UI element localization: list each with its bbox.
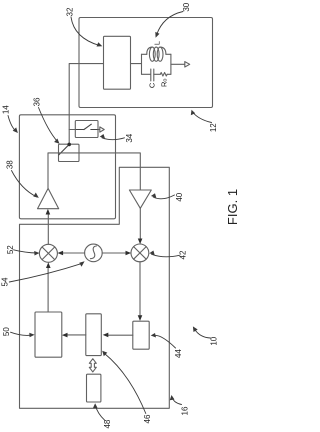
leader arrowhead 36: [54, 139, 59, 144]
leader arrowhead 40: [151, 193, 156, 198]
wire cap to resistor: [154, 73, 161, 75]
leader arrowhead 14: [13, 127, 18, 133]
leader arrowhead 12: [191, 110, 195, 116]
leader 52: [14, 250, 38, 253]
leader 38: [12, 171, 37, 197]
svg-text:16: 16: [181, 406, 190, 415]
leader arrowhead 42: [149, 251, 154, 256]
wire amplifier40 to mixer42: [139, 208, 141, 240]
capacitor C plate 1: [150, 69, 152, 81]
wire box36 common up and to box32: [69, 64, 103, 145]
leader 42: [152, 254, 180, 256]
wire box46 to box50: [66, 334, 86, 336]
leader arrowhead 10: [193, 326, 198, 332]
mixer 52 X: [42, 247, 55, 260]
svg-text:C: C: [148, 82, 157, 88]
svg-text:54: 54: [1, 277, 10, 286]
output open arrow: [185, 62, 190, 67]
arrowhead box46 to box50: [62, 333, 68, 338]
box 16 stepped enclosure: [20, 167, 170, 408]
arrowhead box44 to box46: [103, 333, 109, 338]
leader 50: [11, 332, 33, 335]
svg-text:52: 52: [6, 245, 15, 254]
mixer 52 circle: [39, 244, 57, 262]
wire branch to box 34: [69, 129, 75, 131]
wire through box 36: [59, 152, 80, 154]
amplifier triangle 40: [129, 190, 151, 208]
svg-text:38: 38: [5, 160, 14, 169]
inductor L right arc: [160, 47, 166, 54]
arrowhead mixer42 to box44: [138, 315, 143, 321]
leader 14: [8, 116, 16, 132]
inductor L loop 3: [157, 47, 163, 61]
double arrow box46-box48: [89, 359, 96, 372]
leader arrowhead 30: [155, 32, 159, 38]
tank left bar: [141, 54, 143, 74]
svg-text:32: 32: [65, 7, 74, 16]
leader arrowhead 50: [29, 333, 34, 338]
tank right bar: [170, 54, 172, 74]
wire mixer52 to amplifier38: [47, 213, 49, 245]
arrowhead osc54 to mixer42: [126, 251, 132, 256]
arrowhead mixer52 input from below: [46, 262, 51, 268]
output wire from tank: [171, 63, 185, 65]
oscillator 54 sine: [90, 246, 96, 259]
svg-text:42: 42: [178, 250, 187, 259]
leader 16: [172, 398, 181, 405]
wire osc54 to mixer42: [102, 252, 128, 254]
leader 46: [105, 354, 146, 414]
arrowhead amplifier40 to mixer42: [138, 239, 143, 245]
svg-text:34: 34: [125, 133, 134, 142]
wire box36 to amplifier 40: [79, 153, 140, 190]
leader 12: [193, 112, 212, 123]
open arrow after box 34: [100, 127, 104, 132]
svg-text:L: L: [153, 41, 162, 45]
wire box34 to open arrow: [98, 129, 100, 131]
leader arrowhead 44: [151, 333, 156, 338]
mixer 42 circle: [131, 244, 149, 262]
leader 10 arrow: [195, 330, 211, 339]
box 14 (upper section enclosure): [19, 115, 115, 219]
wire osc54 to mixer52: [62, 252, 85, 254]
box 34 (switch box): [75, 121, 98, 138]
inductor L loop 2: [153, 47, 159, 61]
box 36 (switch box): [59, 144, 80, 161]
leader arrowhead 54: [79, 261, 84, 266]
junction dot box36 switch common: [67, 143, 71, 147]
box 50: [35, 312, 62, 357]
svg-text:44: 44: [174, 349, 183, 358]
svg-text:48: 48: [103, 419, 112, 428]
leader 54: [9, 263, 82, 282]
leader 32: [71, 17, 100, 46]
box 48: [87, 374, 101, 402]
leader arrowhead 16: [170, 395, 175, 400]
arrowhead osc54 to mixer52: [58, 251, 64, 256]
leader 48: [95, 405, 105, 420]
box 32: [104, 36, 131, 89]
leader arrowhead 52: [34, 251, 39, 256]
leader arrowhead 46: [102, 351, 107, 357]
wire resistor to right bar: [167, 73, 171, 75]
amplifier triangle 38: [38, 188, 59, 208]
wire box50 to mixer52: [47, 266, 49, 312]
svg-text:10: 10: [210, 336, 219, 345]
inductor L left arc: [147, 47, 153, 54]
oscillator 54 circle: [85, 244, 103, 262]
leader arrowhead 38: [33, 193, 39, 198]
wire mixer42 to box44: [139, 262, 141, 317]
svg-text:FIG. 1: FIG. 1: [225, 189, 240, 225]
svg-text:46: 46: [143, 414, 152, 423]
leader 44: [154, 335, 176, 348]
box 30 (output network enclosure): [79, 18, 213, 108]
leader 36: [39, 108, 58, 142]
switch arm in box 36: [59, 144, 69, 155]
resistor Ro zigzag: [160, 73, 167, 77]
leader arrowhead 32: [97, 42, 103, 46]
leader arrowhead 34: [100, 134, 105, 139]
leader lines with arrowheads: [8, 12, 212, 421]
tank bottom branch wire left: [142, 73, 151, 75]
box 44: [133, 321, 149, 349]
leader 40: [153, 195, 174, 199]
wire box32 to tank: [131, 63, 142, 65]
tank top branch wire left: [142, 53, 147, 55]
arrowhead into amplifier 38: [46, 209, 51, 215]
svg-text:12: 12: [209, 123, 218, 132]
switch in box 34: [75, 124, 98, 129]
inductor L loop 1: [149, 47, 155, 61]
box 46: [86, 314, 102, 356]
leader arrowhead 48: [93, 403, 98, 408]
mixer 42 X: [134, 247, 147, 260]
svg-text:14: 14: [1, 105, 10, 114]
svg-text:30: 30: [182, 2, 191, 11]
capacitor C plate 2: [153, 69, 155, 81]
wire amplifier38 to box36: [48, 153, 59, 189]
leader 34: [102, 138, 125, 140]
svg-text:36: 36: [33, 97, 42, 106]
leader 30: [157, 12, 184, 36]
wire box44 to box46: [106, 334, 133, 336]
tank top branch wire right: [166, 53, 171, 55]
svg-text:40: 40: [175, 192, 184, 201]
svg-text:50: 50: [2, 327, 11, 336]
